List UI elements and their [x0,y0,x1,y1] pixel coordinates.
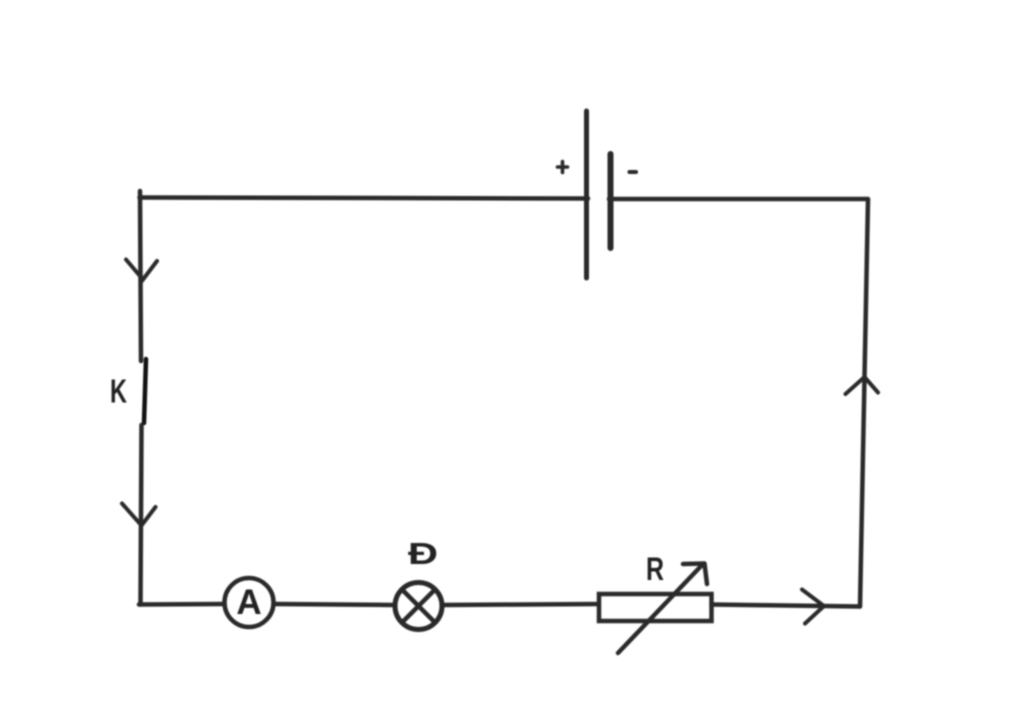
current arrow up [846,377,879,394]
svg-text:A: A [236,583,261,622]
switch K blade [144,359,146,423]
battery negative plate [608,154,614,248]
wire left upper segment [140,191,141,361]
current arrow down upper [126,260,157,280]
svg-text:K: K [110,373,127,410]
ammeter A1 circle [225,578,274,627]
wire right vertical [860,200,868,607]
rheostat diagonal arrow shaft [618,564,703,653]
wire rheostat to bottom-right corner [712,605,861,607]
svg-text:Đ: Đ [408,536,438,571]
wire lamp to rheostat [442,604,600,605]
wire bottom corner to ammeter [139,602,224,607]
lamp X cross [402,590,435,623]
current arrow right [802,590,824,624]
battery positive plate [584,111,589,278]
battery + label [558,162,568,173]
lamp X cross 2 [402,590,435,623]
battery - label [630,170,637,174]
current arrow down lower [122,504,156,526]
lamp D circle [395,583,442,630]
svg-text:R: R [646,551,664,587]
wire ammeter to lamp [276,604,396,605]
rheostat R body [599,594,712,621]
rheostat arrowhead [683,561,704,566]
wire left lower segment [141,425,142,605]
wire battery to top-right [609,197,868,202]
rheostat arrowhead 2 [705,564,708,585]
wire top-left to battery [140,198,589,199]
